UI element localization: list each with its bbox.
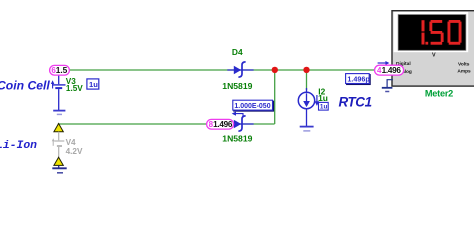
- svg-text:1u: 1u: [318, 93, 328, 103]
- probe bubble net 8 : 1.496: [207, 119, 234, 129]
- svg-text:1.000E-050: 1.000E-050: [234, 103, 270, 110]
- svg-text:D4: D4: [232, 47, 243, 57]
- wire top net from V3 to meter: [69, 69, 374, 71]
- svg-text:1.496p: 1.496p: [347, 74, 370, 83]
- svg-text:Volts: Volts: [458, 61, 470, 67]
- meter input pin arrow: [378, 61, 390, 65]
- label D4 part number: [222, 81, 252, 91]
- ground (V3): [53, 111, 65, 115]
- svg-text:Amps: Amps: [457, 69, 471, 75]
- label V3 value: [66, 77, 83, 93]
- annotation box 1.000E-050 with leader arrow: [232, 100, 274, 117]
- label I2 value: [318, 86, 328, 103]
- svg-text:1N5819: 1N5819: [222, 133, 252, 143]
- svg-text:1u: 1u: [320, 104, 328, 111]
- current source I2: [298, 88, 319, 126]
- label D5 part number: [222, 133, 252, 143]
- svg-text:1.5: 1.5: [56, 65, 68, 75]
- diode D5 (Schottky 1N5819, lower): [230, 116, 254, 131]
- svg-text:1u: 1u: [89, 80, 98, 89]
- svg-text:1N5819: 1N5819: [222, 81, 252, 91]
- label D4: [232, 47, 243, 57]
- wire bottom net from V4 to diode branch: [58, 123, 275, 125]
- svg-text:Li-Ion: Li-Ion: [0, 140, 37, 152]
- boxed label 1u (V3): [87, 79, 99, 89]
- meter ground wire: [382, 80, 393, 92]
- ground (V4): [52, 165, 66, 172]
- junction dot node A (top of vertical wire): [272, 67, 278, 73]
- battery V3: [51, 74, 66, 110]
- svg-text:1.496: 1.496: [382, 66, 402, 75]
- svg-text:Meter2: Meter2: [425, 89, 453, 99]
- probe bubble net 6 : 1.5: [50, 65, 70, 75]
- svg-text:Coin Cell: Coin Cell: [0, 79, 50, 93]
- wire stub from top net down to current source I2: [306, 70, 308, 90]
- svg-text:V: V: [432, 52, 436, 58]
- node label Coin Cell: [0, 79, 50, 93]
- boxed label 1.496p: [346, 74, 371, 85]
- meter digits 1.50: [422, 20, 462, 45]
- node label Li-Ion: [0, 140, 37, 152]
- label RTC1: [339, 95, 372, 110]
- meter body Meter2: [392, 11, 474, 86]
- boxed label 1u (I2): [319, 102, 329, 110]
- svg-text:1.496: 1.496: [213, 120, 233, 129]
- svg-text:4.2V: 4.2V: [66, 147, 83, 156]
- svg-text:RTC1: RTC1: [339, 95, 372, 110]
- svg-text:V4: V4: [66, 138, 76, 147]
- svg-text:1.5V: 1.5V: [66, 84, 83, 93]
- probe bubble net 4 : 1.496: [375, 65, 404, 75]
- ground (I2): [300, 127, 314, 131]
- label V4 value (gray): [66, 138, 83, 156]
- label Meter2: [425, 89, 453, 99]
- wire vertical joining bottom net to top net: [274, 70, 276, 124]
- battery V4 (disabled, gray): [52, 132, 65, 158]
- net connector triangle (V4 top): [54, 124, 63, 132]
- net connector triangle (V4 bottom): [54, 157, 63, 165]
- diode D4 (Schottky 1N5819): [227, 62, 253, 77]
- meter face texts: [396, 52, 471, 75]
- junction dot node B (top of I2): [303, 67, 309, 73]
